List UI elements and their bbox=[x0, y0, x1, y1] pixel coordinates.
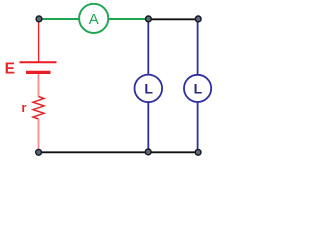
svg-text:A: A bbox=[89, 11, 99, 28]
svg-text:E: E bbox=[5, 60, 15, 77]
svg-text:L: L bbox=[194, 81, 203, 97]
svg-text:r: r bbox=[21, 100, 26, 115]
svg-text:L: L bbox=[144, 81, 153, 97]
